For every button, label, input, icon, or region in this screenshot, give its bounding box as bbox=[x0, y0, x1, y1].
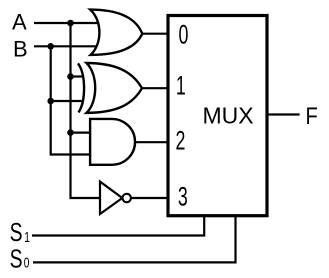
inverter triangle bbox=[100, 182, 122, 214]
svg-text:0: 0 bbox=[179, 19, 189, 50]
OR gate bbox=[90, 10, 142, 55]
wire select S0 to MUX bbox=[33, 215, 236, 262]
wire A vertical rail down to inverter input bbox=[71, 23, 102, 198]
svg-text:1: 1 bbox=[24, 228, 30, 246]
wire select S1 to MUX bbox=[32, 215, 204, 236]
svg-text:S: S bbox=[10, 245, 23, 273]
wire B to OR gate bottom input bbox=[34, 45, 99, 47]
svg-text:MUX: MUX bbox=[203, 102, 254, 128]
wire AND output to MUX input 2 bbox=[135, 141, 170, 143]
junction dot B on input wire bbox=[47, 43, 54, 50]
wire XOR bottom input from B rail bbox=[51, 100, 83, 102]
inverter bubble bbox=[123, 194, 131, 202]
wire XOR top input from A rail bbox=[71, 75, 83, 77]
svg-text:A: A bbox=[12, 10, 27, 35]
MUX box bbox=[168, 16, 267, 216]
junction dot A rail to AND bbox=[67, 129, 74, 136]
wire XOR output to MUX input 1 bbox=[141, 87, 171, 89]
junction dot A on input wire bbox=[67, 20, 74, 27]
svg-text:2: 2 bbox=[176, 125, 186, 156]
wire A to OR gate top input bbox=[34, 22, 99, 24]
svg-text:1: 1 bbox=[176, 70, 186, 101]
XOR gate input arc bbox=[78, 63, 84, 112]
wire B vertical rail down to AND gate bottom input bbox=[51, 46, 92, 154]
AND gate bbox=[90, 119, 135, 165]
junction dot A rail to XOR bbox=[67, 73, 74, 80]
svg-text:S: S bbox=[10, 219, 23, 247]
XOR gate body bbox=[87, 63, 143, 113]
svg-text:B: B bbox=[13, 36, 28, 61]
svg-text:F: F bbox=[305, 102, 317, 129]
wire OR output to MUX input 0 bbox=[141, 33, 170, 35]
wire MUX output to F bbox=[268, 113, 300, 115]
wire inverter output to MUX input 3 bbox=[131, 197, 170, 199]
svg-text:0: 0 bbox=[24, 254, 30, 272]
wire AND top input from A rail bbox=[71, 132, 93, 134]
svg-text:3: 3 bbox=[178, 181, 188, 212]
junction dot B rail to XOR bbox=[47, 98, 54, 105]
